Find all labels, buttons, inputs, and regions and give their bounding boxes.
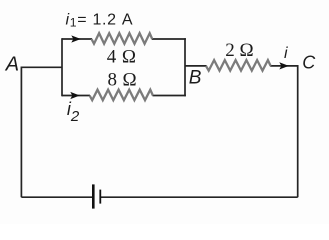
resistor R2 8 ohm zigzag xyxy=(90,90,153,101)
svg-text:4 Ω: 4 Ω xyxy=(107,46,137,67)
wire top branch right xyxy=(152,38,186,40)
svg-text:i: i xyxy=(284,45,288,62)
svg-text:2 Ω: 2 Ω xyxy=(225,40,253,61)
node bar right (parallel junction B) xyxy=(184,38,186,96)
wire A to left junction bar xyxy=(21,67,62,197)
node bar left (parallel junction) xyxy=(61,38,63,96)
battery cell: left long plate xyxy=(92,184,95,208)
svg-text:B: B xyxy=(189,68,202,89)
svg-text:8 Ω: 8 Ω xyxy=(108,70,138,91)
svg-text:A: A xyxy=(5,54,19,76)
svg-text:C: C xyxy=(302,53,316,73)
current arrow i2 (bottom branch) xyxy=(70,92,80,99)
svg-text:i1= 1.2 A: i1= 1.2 A xyxy=(66,11,134,29)
bottom wire left segment xyxy=(21,196,93,198)
battery cell: right short plate xyxy=(99,190,101,204)
wire 2-ohm resistor to C and down xyxy=(270,66,298,197)
resistor R3 2 ohm zigzag xyxy=(206,60,271,71)
current arrow i (to C) xyxy=(279,62,289,69)
wire B to 2-ohm resistor xyxy=(185,65,207,67)
resistor R1 4 ohm zigzag xyxy=(92,33,153,44)
wire top branch left xyxy=(62,38,92,40)
bottom wire right segment xyxy=(101,196,298,198)
wire bottom branch right xyxy=(153,95,186,97)
svg-text:i2: i2 xyxy=(67,99,80,125)
wire bottom branch left xyxy=(62,95,90,97)
current arrow i1 (top branch) xyxy=(71,35,81,42)
